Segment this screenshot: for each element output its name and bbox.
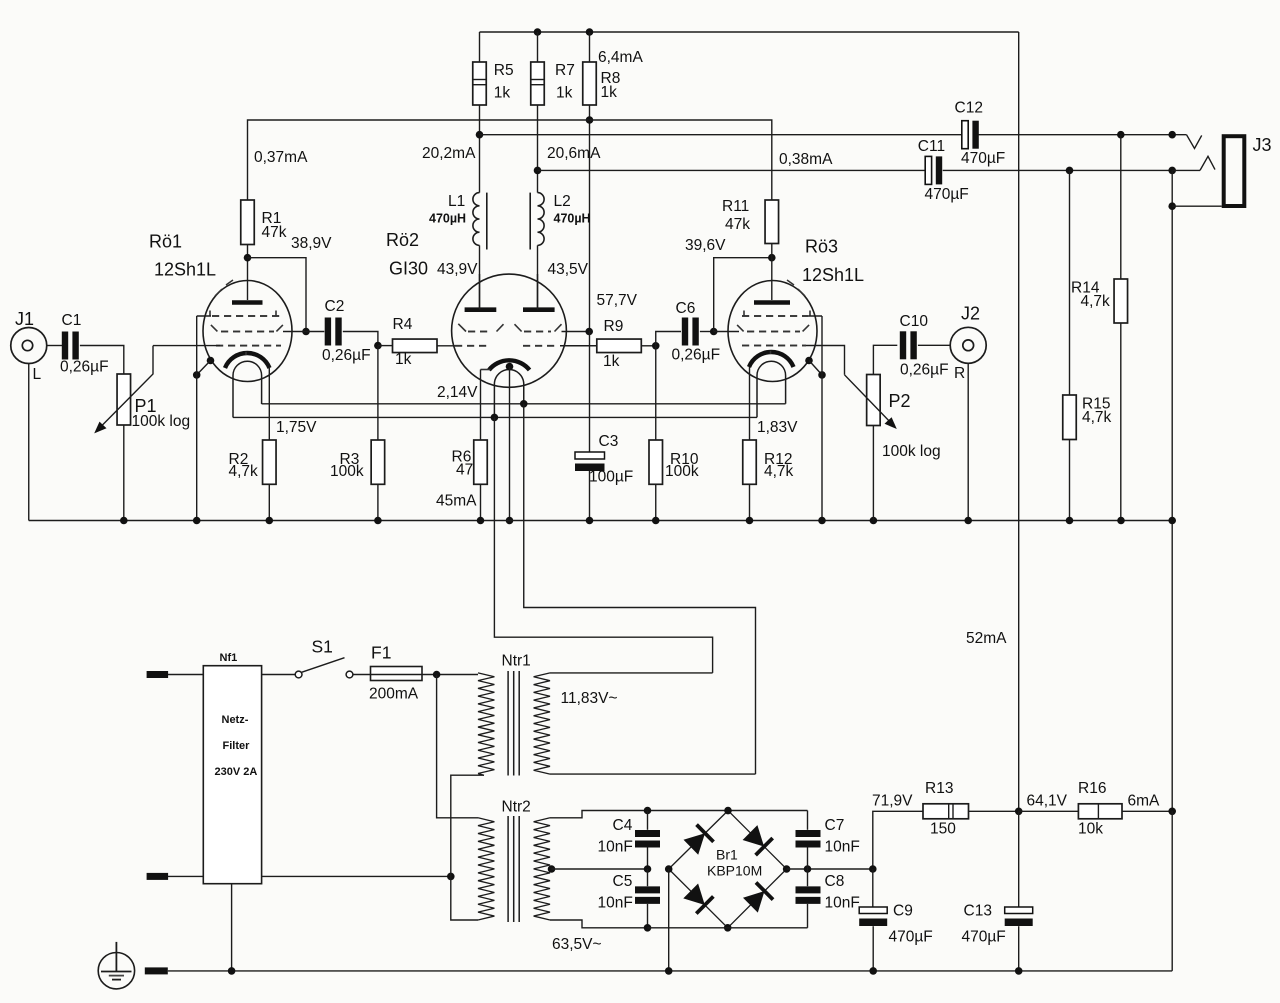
node junction C7/C8: [804, 865, 812, 873]
wire: [550, 672, 713, 674]
label 6mA: [1128, 793, 1161, 810]
fuse F1: [369, 643, 422, 703]
svg-text:Rö1: Rö1: [149, 232, 182, 252]
wire: [378, 345, 393, 347]
node bridge AC top: [724, 807, 732, 815]
svg-text:KBP10M: KBP10M: [707, 863, 762, 879]
connector J1: [11, 309, 47, 383]
node Ntr2 secondary tap: [548, 865, 556, 873]
wire: [46, 345, 62, 347]
terminal mains live: [147, 671, 204, 678]
svg-text:150: 150: [930, 821, 956, 838]
resistor R12: [743, 440, 794, 484]
svg-text:47: 47: [456, 462, 473, 479]
svg-text:Ntr1: Ntr1: [502, 653, 531, 670]
svg-text:C13: C13: [964, 903, 992, 920]
svg-text:71,9V: 71,9V: [872, 793, 913, 810]
node junction: [964, 517, 972, 525]
resistor R3: [330, 440, 385, 484]
resistor R2: [229, 440, 277, 484]
tube Ro2 envelope: [452, 274, 567, 387]
wire: [1172, 205, 1222, 207]
wire: [873, 345, 897, 374]
svg-text:470µF: 470µF: [925, 186, 969, 203]
wire C11 rail: [538, 169, 925, 171]
tube Ro1 envelope: [203, 280, 292, 382]
wire: [655, 346, 657, 440]
wire: [967, 363, 969, 520]
node junction C4 top: [644, 807, 652, 815]
svg-text:1,75V: 1,75V: [276, 419, 317, 436]
svg-text:0,26µF: 0,26µF: [672, 347, 721, 364]
wire: [647, 848, 649, 870]
diode D1 Br1: [684, 825, 714, 855]
wire C12 rail: [480, 134, 963, 136]
wire: [28, 363, 30, 520]
wire: [807, 869, 809, 886]
svg-text:470µF: 470µF: [889, 929, 933, 946]
wire heater leg left Ro2: [494, 417, 712, 673]
connector J3: [1224, 135, 1272, 206]
potentiometer P1: [94, 346, 190, 434]
wire: [589, 331, 591, 452]
node cathode tap Ro3: [805, 357, 813, 365]
wire: [641, 345, 655, 347]
wire: [262, 875, 451, 877]
svg-text:R16: R16: [1078, 780, 1106, 797]
svg-text:39,6V: 39,6V: [685, 237, 726, 254]
capacitor C10: [900, 313, 949, 379]
svg-text:C2: C2: [325, 298, 345, 315]
wire: [979, 134, 1187, 136]
resistor R13: [923, 780, 969, 838]
svg-text:63,5V~: 63,5V~: [552, 936, 602, 953]
label 64,1V: [1027, 793, 1068, 810]
svg-text:0,38mA: 0,38mA: [779, 151, 833, 168]
svg-text:10nF: 10nF: [598, 895, 633, 912]
resistor R6: [452, 440, 488, 484]
svg-text:C6: C6: [676, 300, 696, 317]
wire: [552, 868, 648, 870]
node junction C4/C5: [644, 865, 652, 873]
wire cathode Ro1 to R2: [268, 368, 270, 440]
svg-text:1k: 1k: [395, 351, 412, 368]
node junction R8 / B+ rail: [586, 116, 594, 124]
svg-text:C3: C3: [599, 433, 619, 450]
node junction: [1066, 517, 1074, 525]
svg-text:C8: C8: [825, 873, 845, 890]
wire: [1120, 323, 1122, 521]
svg-text:4,7k: 4,7k: [1081, 293, 1111, 310]
svg-text:J3: J3: [1253, 135, 1272, 155]
wire: [377, 484, 379, 520]
svg-text:R5: R5: [494, 62, 514, 79]
wire: [550, 920, 648, 928]
capacitor C3: [575, 433, 633, 486]
node junction g3/cathode Ro3: [818, 371, 826, 379]
svg-text:38,9V: 38,9V: [291, 235, 332, 252]
wire: [479, 32, 481, 62]
node junction jack tip: [1168, 131, 1176, 139]
capacitor C8: [796, 873, 860, 912]
wire: [248, 258, 307, 332]
wire: [647, 869, 649, 886]
node junction R14 top: [1117, 131, 1125, 139]
terminal mains earth: [145, 967, 168, 974]
network filter Nf1: [203, 652, 261, 884]
node bridge AC bottom: [724, 924, 732, 932]
svg-text:R13: R13: [925, 780, 953, 797]
wire: [872, 426, 874, 521]
anode Ro1: [232, 300, 263, 305]
svg-text:L2: L2: [554, 193, 571, 210]
svg-text:GI30: GI30: [389, 259, 428, 279]
wire: [647, 904, 649, 928]
svg-text:20,6mA: 20,6mA: [547, 145, 601, 162]
svg-text:470µF: 470µF: [961, 150, 1005, 167]
label 43,9V: [437, 261, 478, 278]
svg-text:10k: 10k: [1078, 821, 1103, 838]
resistor R4: [393, 316, 438, 368]
label Ro1: [149, 232, 216, 280]
label 2,14V: [437, 384, 478, 401]
capacitor C11: [918, 138, 969, 203]
wire: [550, 811, 648, 818]
svg-text:4,7k: 4,7k: [1082, 409, 1112, 426]
node junction: [120, 517, 128, 525]
wire: [283, 331, 324, 333]
wire heater rail B: [233, 416, 757, 418]
wire: [509, 367, 511, 521]
transformer Ntr2 core: [508, 816, 519, 922]
capacitor C7: [796, 817, 860, 856]
switch S1: [295, 637, 353, 678]
capacitor C1: [60, 312, 109, 376]
node junction 64,1V: [1015, 808, 1023, 816]
capacitor C9: [859, 903, 933, 946]
svg-text:100k log: 100k log: [132, 413, 191, 430]
wire: [771, 244, 773, 301]
node junction 6mA: [1168, 808, 1176, 816]
label 0,38mA: [779, 151, 833, 168]
wire P1 wiper to g1: [153, 345, 220, 347]
label 20,6mA: [547, 145, 601, 162]
label Ro2: [386, 230, 428, 279]
resistor R7: [531, 62, 575, 105]
svg-text:10nF: 10nF: [598, 839, 633, 856]
wire heater rail A: [262, 403, 786, 405]
svg-text:S1: S1: [312, 637, 333, 657]
grid g2 Ro2: [458, 324, 589, 332]
wire: [1069, 440, 1071, 521]
capacitor C4: [598, 817, 661, 856]
node junction R8 top: [586, 28, 594, 36]
wire: [262, 674, 296, 676]
svg-text:470µF: 470µF: [962, 929, 1006, 946]
node junction R9/R10/C6: [652, 342, 660, 350]
wire: [873, 811, 923, 869]
svg-text:Rö2: Rö2: [386, 230, 419, 250]
node junction C2: [302, 328, 310, 336]
label 0,37mA: [254, 149, 308, 166]
svg-text:230V 2A: 230V 2A: [215, 766, 258, 778]
wire: [668, 869, 670, 971]
jack ring contact: [1172, 156, 1215, 170]
wire: [647, 811, 649, 830]
resistor R14: [1071, 279, 1128, 323]
svg-text:11,83V~: 11,83V~: [561, 690, 618, 707]
grid g1 Ro1: [216, 345, 281, 347]
wire: [343, 332, 378, 346]
svg-text:47k: 47k: [262, 224, 287, 241]
wire: [1018, 32, 1020, 811]
svg-text:470µH: 470µH: [429, 212, 466, 226]
node junction: [1015, 967, 1023, 975]
wire cathode Ro2 to R6: [480, 370, 482, 441]
svg-text:R11: R11: [722, 198, 749, 215]
grid g2 Ro1: [211, 325, 283, 332]
transformer Ntr2 primary: [478, 799, 531, 921]
label 71,9V: [872, 793, 913, 810]
svg-text:J2: J2: [961, 304, 980, 324]
node junction: [374, 517, 382, 525]
node junction: [193, 517, 201, 525]
svg-text:Nf1: Nf1: [220, 652, 238, 664]
svg-text:200mA: 200mA: [369, 686, 419, 703]
capacitor C5: [598, 873, 661, 912]
label 57,7V: [597, 292, 638, 309]
capacitor C2: [322, 298, 371, 364]
node junction R15 top: [1066, 167, 1074, 175]
wire heater leg right Ro2: [524, 404, 756, 774]
node junction heater Ro2 left: [491, 414, 499, 422]
label 39,6V: [685, 237, 726, 254]
svg-text:C11: C11: [918, 138, 945, 155]
wire: [80, 346, 124, 375]
wire g3-ground line Ro1: [196, 316, 198, 521]
anode Ro3: [754, 300, 790, 305]
grid g1 Ro3: [742, 345, 806, 347]
node junction C11 rail left end: [534, 167, 542, 175]
wire: [918, 344, 950, 346]
capacitor C12: [955, 100, 1006, 168]
wire: [1069, 170, 1071, 395]
node junction C9/bridge: [869, 865, 877, 873]
label 52mA: [966, 630, 1007, 647]
svg-text:10nF: 10nF: [825, 839, 860, 856]
node junction R4/R3: [374, 342, 382, 350]
resistor R15: [1063, 395, 1112, 440]
svg-text:4,7k: 4,7k: [764, 463, 794, 480]
wire cathode Ro3 to R12: [749, 367, 751, 440]
node cathode tap Ro1: [207, 357, 215, 365]
diode D2 Br1: [743, 825, 773, 855]
svg-text:Filter: Filter: [223, 740, 251, 752]
heater Ro2: [494, 370, 523, 418]
svg-text:12Sh1L: 12Sh1L: [154, 260, 216, 280]
svg-text:R9: R9: [604, 318, 624, 335]
node junction: [506, 517, 514, 525]
svg-text:C7: C7: [825, 817, 845, 834]
svg-text:C12: C12: [955, 100, 983, 117]
svg-text:C4: C4: [613, 817, 633, 834]
wire: [1171, 811, 1173, 971]
svg-text:6,4mA: 6,4mA: [598, 49, 643, 66]
grid g1 Ro2: [455, 345, 597, 347]
node junction R7 top: [534, 28, 542, 36]
wire: [479, 245, 481, 308]
node junction jack sleeve: [1168, 202, 1176, 210]
svg-text:C5: C5: [613, 873, 633, 890]
node bridge plus: [783, 865, 791, 873]
svg-text:100µF: 100µF: [589, 469, 633, 486]
svg-text:R4: R4: [393, 316, 413, 333]
label Ro3: [802, 237, 864, 286]
wire: [807, 904, 809, 928]
wire: [537, 105, 539, 193]
node junction: [477, 517, 485, 525]
wire: [1018, 926, 1020, 971]
node junction: [266, 517, 274, 525]
diode D4 Br1: [743, 883, 773, 913]
node junction: [228, 967, 236, 975]
wire: [480, 31, 1019, 33]
node junction g3/cathode Ro1: [193, 371, 201, 379]
tube Ro3 envelope: [728, 280, 817, 382]
transformer Ntr2 secondary: [534, 818, 602, 953]
cathode Ro2: [481, 360, 530, 370]
node junction: [586, 517, 594, 525]
wire: [353, 674, 371, 676]
label 1,75V: [276, 419, 317, 436]
wire ground rail: [29, 520, 1172, 522]
heater Ro1: [233, 361, 262, 417]
node cathode center tap Ro2: [506, 363, 514, 371]
svg-text:L: L: [33, 366, 42, 383]
svg-text:43,5V: 43,5V: [548, 261, 589, 278]
node junction: [665, 967, 673, 975]
diode D3 Br1: [683, 884, 713, 914]
wire: [451, 775, 484, 920]
node junction mains live: [433, 671, 441, 679]
svg-text:Br1: Br1: [716, 847, 738, 863]
svg-text:Ntr2: Ntr2: [502, 799, 531, 816]
wire Ntr1 primary bottom: [478, 774, 484, 776]
grid g3 Ro1: [197, 311, 280, 317]
wire: [969, 810, 1019, 812]
cathode Ro1: [225, 352, 270, 368]
svg-text:0,37mA: 0,37mA: [254, 149, 308, 166]
wire g1 Ro3 to P2 wiper: [806, 346, 845, 375]
cathode Ro3: [749, 351, 794, 367]
grid g2 Ro3: [714, 325, 809, 332]
wire: [787, 868, 873, 870]
connector J2: [950, 304, 986, 383]
wire: [1019, 810, 1079, 812]
svg-text:64,1V: 64,1V: [1027, 793, 1068, 810]
node junction C5 bottom: [644, 924, 652, 932]
svg-text:52mA: 52mA: [966, 630, 1007, 647]
svg-text:1k: 1k: [601, 84, 618, 101]
node junction: [869, 967, 877, 975]
resistor R9: [597, 318, 642, 370]
svg-text:43,9V: 43,9V: [437, 261, 478, 278]
node junction: [870, 517, 878, 525]
capacitor C6: [672, 300, 721, 364]
wire g3-ground line Ro3: [821, 316, 823, 521]
earth ground symbol: [98, 942, 134, 989]
svg-text:Netz-: Netz-: [222, 714, 249, 726]
transformer Ntr1 primary: [478, 653, 531, 774]
wire: [1122, 810, 1172, 812]
node junction C6 / anode Ro3: [710, 328, 718, 336]
capacitor C13: [962, 903, 1033, 946]
wire Nf1 earth: [231, 884, 233, 971]
transformer Ntr1 secondary: [534, 673, 618, 774]
svg-text:4,7k: 4,7k: [229, 463, 259, 480]
resistor R16: [1078, 780, 1122, 838]
wire: [123, 425, 125, 521]
wire: [422, 674, 478, 676]
wire: [479, 105, 481, 193]
svg-text:0,26µF: 0,26µF: [900, 362, 949, 379]
anode a2 Ro2: [523, 274, 555, 310]
wire: [872, 926, 874, 971]
wire: [436, 484, 481, 520]
node junction ground rail / jack return: [1168, 517, 1176, 525]
node junction: [818, 517, 826, 525]
svg-text:C9: C9: [893, 903, 913, 920]
wire: [248, 120, 772, 200]
svg-text:F1: F1: [371, 643, 391, 663]
wire: [268, 484, 270, 520]
svg-text:1k: 1k: [603, 353, 620, 370]
wire: [197, 361, 211, 375]
wire: [656, 332, 681, 346]
anode a1 Ro2: [465, 274, 497, 310]
wire: [1120, 135, 1122, 279]
svg-text:1,83V: 1,83V: [757, 419, 798, 436]
wire rectifier top rail: [648, 810, 808, 812]
wire: [247, 245, 249, 301]
svg-text:6mA: 6mA: [1128, 793, 1161, 810]
node junction mains neutral: [447, 873, 455, 881]
wire: [872, 869, 874, 907]
svg-text:1k: 1k: [494, 85, 511, 102]
node bridge minus: [665, 865, 673, 873]
svg-text:12Sh1L: 12Sh1L: [802, 265, 864, 285]
svg-text:L1: L1: [448, 193, 465, 210]
label 20,2mA: [422, 145, 476, 162]
svg-text:100k: 100k: [330, 463, 364, 480]
svg-text:47k: 47k: [725, 216, 750, 233]
svg-text:Rö3: Rö3: [805, 237, 838, 257]
terminal mains neutral: [147, 873, 204, 880]
svg-text:R: R: [954, 365, 965, 382]
wire: [809, 361, 822, 375]
node junction: [746, 517, 754, 525]
svg-text:C1: C1: [62, 312, 82, 329]
resistor R11: [722, 198, 779, 244]
wire: [943, 169, 1172, 171]
wire: [807, 811, 809, 830]
svg-text:J1: J1: [15, 309, 34, 329]
node junction heater Ro2 right: [520, 400, 528, 408]
grid g3 Ro3: [742, 311, 822, 317]
node junction jack ring: [1168, 167, 1176, 175]
svg-text:10nF: 10nF: [825, 895, 860, 912]
label 1,83V: [757, 419, 798, 436]
